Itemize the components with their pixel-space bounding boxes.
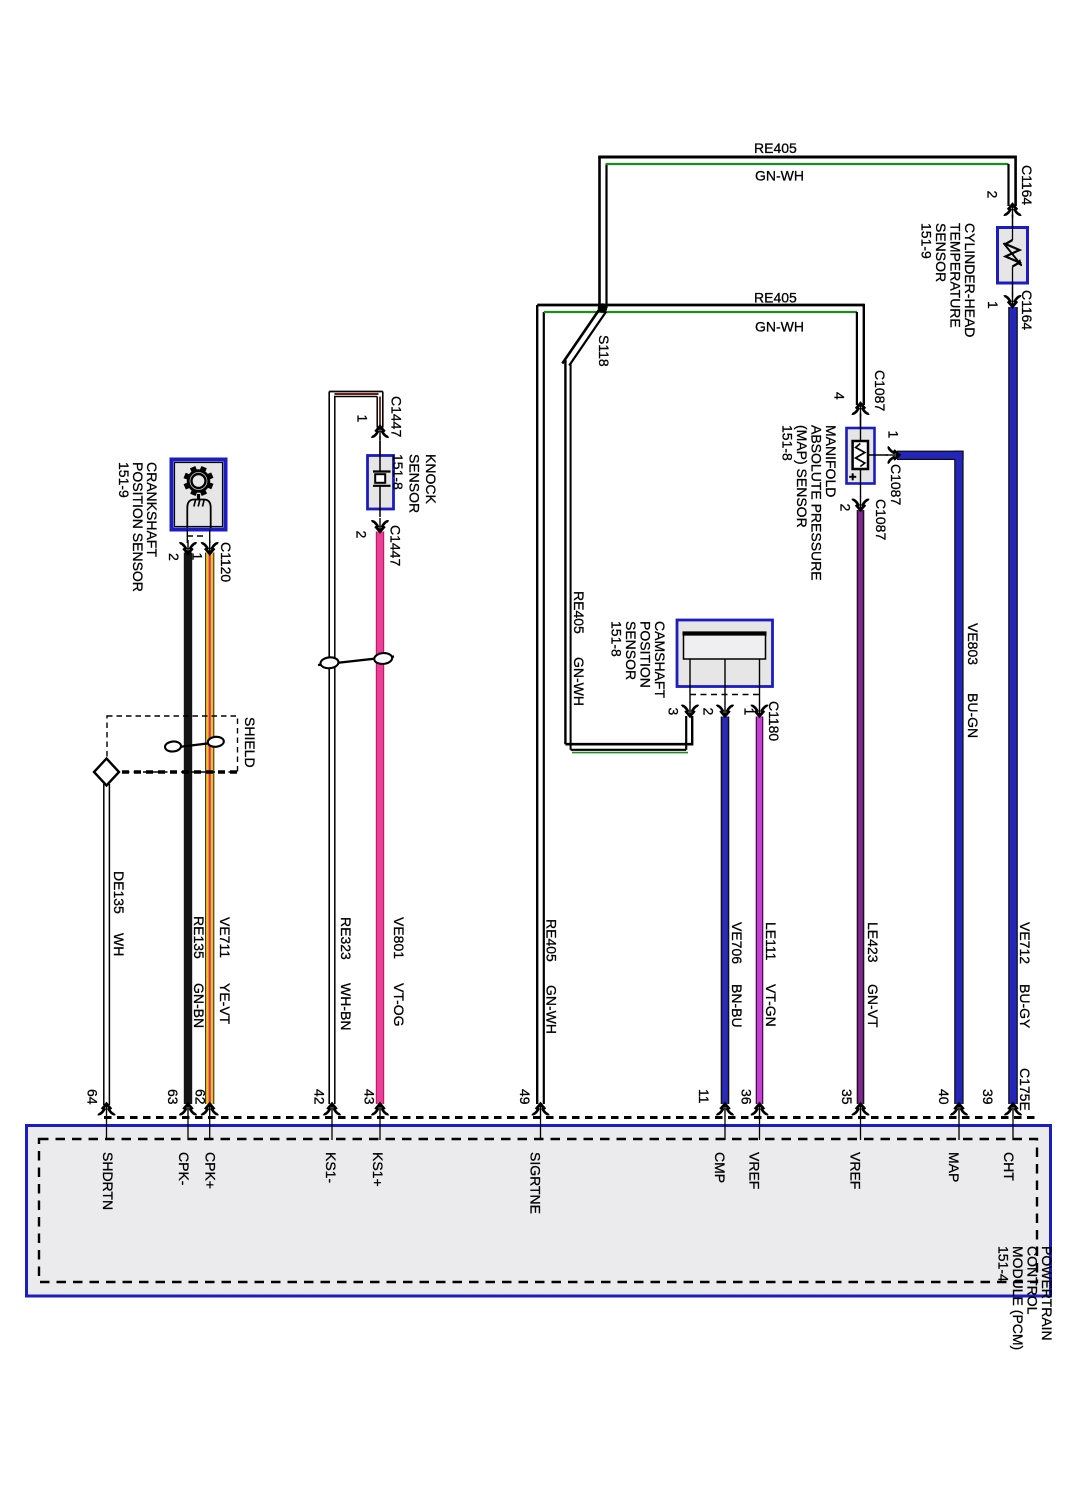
svg-text:KNOCKSENSOR151-8: KNOCKSENSOR151-8	[390, 454, 439, 513]
svg-text:C1164: C1164	[1019, 165, 1035, 205]
svg-text:4: 4	[832, 392, 848, 400]
svg-text:C1087: C1087	[888, 464, 904, 505]
svg-text:CYLINDER-HEADTEMPERATURESENSOR: CYLINDER-HEADTEMPERATURESENSOR151-9	[919, 223, 979, 337]
svg-text:35: 35	[839, 1089, 855, 1105]
svg-text:11: 11	[696, 1089, 712, 1104]
svg-text:DE135: DE135	[111, 871, 127, 914]
svg-text:2: 2	[701, 708, 717, 716]
svg-text:2: 2	[985, 191, 1001, 199]
svg-text:36: 36	[739, 1089, 755, 1105]
svg-text:VREF: VREF	[848, 1152, 864, 1189]
svg-text:C1180: C1180	[766, 701, 782, 741]
svg-text:43: 43	[362, 1089, 378, 1105]
svg-text:RE405: RE405	[754, 290, 797, 306]
svg-text:SHDRTN: SHDRTN	[100, 1152, 116, 1210]
svg-text:BN-BU: BN-BU	[729, 984, 745, 1028]
svg-text:MANIFOLDABSOLUTE PRESSURE(MAP): MANIFOLDABSOLUTE PRESSURE(MAP) SENSOR151…	[780, 425, 840, 581]
svg-text:WH: WH	[111, 933, 127, 956]
svg-text:BU-GY: BU-GY	[1017, 984, 1033, 1029]
svg-text:C1087: C1087	[873, 499, 889, 540]
svg-text:VE801: VE801	[391, 917, 407, 959]
svg-text:1: 1	[355, 415, 371, 423]
svg-text:C1447: C1447	[389, 396, 405, 437]
svg-text:S118: S118	[596, 335, 612, 367]
svg-text:LE111: LE111	[763, 922, 779, 961]
svg-text:VT-GN: VT-GN	[763, 984, 779, 1027]
svg-text:POWERTRAINCONTROLMODULE (PCM)1: POWERTRAINCONTROLMODULE (PCM)151-4	[996, 1246, 1056, 1350]
svg-text:SHIELD: SHIELD	[242, 717, 258, 768]
svg-text:GN-VT: GN-VT	[865, 984, 881, 1028]
svg-text:1: 1	[985, 301, 1001, 309]
svg-text:C175E: C175E	[1017, 1068, 1033, 1111]
svg-text:RE405: RE405	[544, 919, 560, 962]
svg-text:2: 2	[166, 553, 182, 561]
svg-text:49: 49	[517, 1089, 533, 1105]
svg-text:YE-VT: YE-VT	[217, 983, 233, 1025]
svg-text:VE711: VE711	[217, 917, 233, 958]
svg-text:1: 1	[190, 553, 206, 561]
svg-text:VE803: VE803	[965, 623, 981, 665]
svg-text:RE135: RE135	[191, 916, 207, 959]
svg-text:GN-BN: GN-BN	[191, 983, 207, 1028]
svg-text:GN-WH: GN-WH	[571, 657, 587, 706]
svg-text:C1164: C1164	[1019, 290, 1035, 330]
svg-text:40: 40	[936, 1089, 952, 1105]
svg-text:GN-WH: GN-WH	[755, 168, 804, 184]
svg-text:GN-WH: GN-WH	[544, 985, 560, 1034]
svg-text:KS1-: KS1-	[323, 1152, 339, 1183]
svg-text:VREF: VREF	[747, 1152, 763, 1189]
svg-text:WH-BN: WH-BN	[338, 983, 354, 1030]
svg-text:VE706: VE706	[729, 922, 745, 964]
svg-text:GN-WH: GN-WH	[755, 319, 804, 335]
svg-text:RE323: RE323	[338, 917, 354, 960]
svg-text:RE405: RE405	[571, 591, 587, 634]
svg-text:CAMSHAFTPOSITIONSENSOR151-8: CAMSHAFTPOSITIONSENSOR151-8	[609, 621, 669, 698]
svg-text:62: 62	[193, 1089, 209, 1105]
svg-text:VE712: VE712	[1017, 922, 1033, 964]
svg-text:KS1+: KS1+	[370, 1152, 386, 1187]
svg-text:64: 64	[85, 1089, 101, 1105]
svg-text:SIGRTNE: SIGRTNE	[528, 1152, 544, 1214]
svg-text:MAP: MAP	[946, 1152, 962, 1182]
svg-text:CHT: CHT	[1001, 1152, 1017, 1181]
svg-text:3: 3	[666, 708, 682, 716]
svg-text:LE423: LE423	[865, 922, 881, 963]
svg-text:C1087: C1087	[872, 370, 888, 411]
svg-text:RE405: RE405	[754, 140, 797, 156]
svg-text:63: 63	[165, 1089, 181, 1105]
svg-text:BU-GN: BU-GN	[965, 693, 981, 738]
svg-text:39: 39	[980, 1089, 996, 1105]
svg-text:CMP: CMP	[712, 1152, 728, 1183]
svg-text:CRANKSHAFTPOSITION SENSOR151-9: CRANKSHAFTPOSITION SENSOR151-9	[116, 462, 160, 592]
svg-text:1: 1	[742, 708, 758, 716]
svg-text:2: 2	[354, 531, 370, 539]
svg-text:2: 2	[838, 504, 854, 512]
svg-text:VT-OG: VT-OG	[391, 983, 407, 1027]
svg-text:42: 42	[312, 1089, 328, 1105]
svg-text:C1120: C1120	[218, 542, 234, 582]
svg-text:CPK-: CPK-	[176, 1152, 192, 1186]
svg-text:1: 1	[886, 431, 902, 439]
svg-text:CPK+: CPK+	[203, 1152, 219, 1189]
svg-text:C1447: C1447	[388, 525, 404, 566]
